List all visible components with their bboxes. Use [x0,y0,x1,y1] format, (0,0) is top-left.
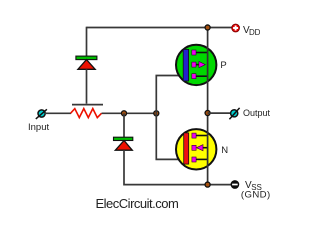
Q1 bulk internal wire [196,64,200,66]
wire VDD top rail [87,27,233,29]
junction node A (resistor / D2) [121,111,126,116]
Q2 bulk contact bar [192,145,196,150]
svg-text:(GND): (GND) [241,189,271,200]
label Output [243,108,271,118]
Q1 gate electrode bar (blue) [183,49,188,81]
Q1 source contact bar [192,74,196,79]
label P [220,60,226,71]
wire output [208,112,231,114]
Q2 source contact bar [192,157,196,162]
node T-bar above resistor [72,104,103,106]
svg-text:DD: DD [249,28,261,37]
resistor R1 [71,109,102,118]
output terminal [229,108,239,119]
label VDD [243,25,261,37]
input terminal [36,109,47,119]
wire D1 anode lead [86,69,88,103]
svg-text:ElecCircuit.com: ElecCircuit.com [96,196,179,211]
Q2 bulk internal wire [203,147,208,149]
watermark ElecCircuit.com [96,196,179,211]
wire resistor to gate node [102,112,158,114]
svg-text:P: P [220,60,226,71]
label Input [28,122,49,133]
junction dot at output node [205,110,210,115]
wire input to resistor [45,112,71,114]
zener diode D1 anode triangle [78,60,95,70]
wire gate riser up to P gate [156,76,184,114]
VSS terminal [231,181,239,189]
Q2 bulk arrow (points left) [197,145,204,151]
junction dot on VDD rail [205,25,210,30]
Q1 bulk contact bar [192,62,196,67]
label N [221,145,228,156]
Q1 bulk arrow (points right) [199,62,205,68]
svg-text:N: N [221,145,228,156]
Q2 source internal wire [196,158,208,160]
svg-text:Input: Input [28,122,49,133]
junction node B (gate riser) [154,111,159,116]
svg-text:Output: Output [243,108,271,118]
wire gate riser down to N gate [156,113,185,159]
zener diode D2 anode triangle [115,141,132,151]
Q2 drain internal wire [196,135,208,137]
zener diode D1 cathode bar [76,56,97,60]
zener diode D2 cathode bar [114,137,133,140]
label (GND) [241,189,271,200]
wire D2 anode lead down to VSS rail [124,150,232,185]
Q1 drain internal wire [196,52,208,54]
P-MOSFET Q1 body circle [176,45,216,85]
Q2 drain contact bar [192,133,196,138]
Q1 drain contact bar [192,50,196,55]
Q2 gate electrode bar (red) [184,133,189,164]
N-MOSFET Q2 body circle [176,129,216,169]
wire D2 cathode lead [123,113,125,137]
VDD terminal [232,24,240,32]
wire D1 cathode lead (to VDD rail) [86,27,88,57]
wire main drain column (VDD dot to VSS dot) [207,28,209,185]
label VSS [245,180,262,192]
junction dot on VSS rail [205,182,210,187]
Q1 source internal wire [196,75,208,77]
